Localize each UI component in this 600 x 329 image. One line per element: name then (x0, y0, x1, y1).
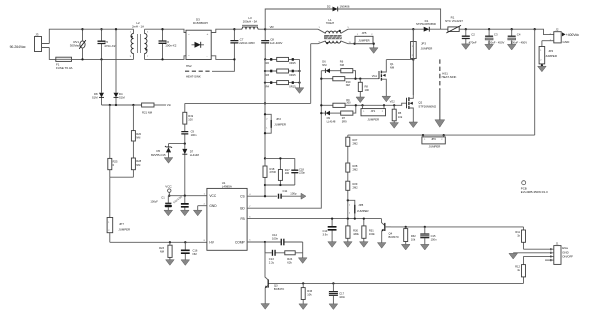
wire FB pin (247, 218, 381, 220)
svg-text:C2: C2 (471, 33, 475, 37)
svg-text:HEAT-SINK: HEAT-SINK (186, 74, 201, 78)
svg-text:JP1: JP1 (371, 109, 376, 113)
resistor R17 (265, 157, 295, 186)
wire enable line 1 (391, 226, 524, 228)
svg-text:2mH - 1A: 2mH - 1A (132, 25, 144, 29)
svg-text:BZV55-C15: BZV55-C15 (151, 153, 166, 157)
svg-text:R8: R8 (365, 85, 369, 89)
svg-text:STPSC6H065D: STPSC6H065D (416, 22, 436, 26)
jumper JP3 (411, 29, 433, 95)
svg-text:JP4: JP4 (548, 49, 553, 53)
jumper JP7 (107, 177, 130, 242)
svg-text:R12: R12 (515, 265, 520, 269)
wire bridge + output to rail (211, 29, 234, 32)
wire VCC line (168, 195, 207, 197)
wire divider top to 400V via JP9 (348, 134, 535, 136)
wire 400V rail (466, 29, 554, 34)
svg-text:100p: 100p (290, 192, 297, 196)
svg-text:62k: 62k (287, 260, 292, 264)
jumper JP9 (422, 134, 445, 149)
svg-text:JP3: JP3 (421, 41, 426, 45)
svg-text:R3: R3 (266, 73, 270, 77)
wire N rail after fuse (72, 58, 134, 60)
capacitor C16 (181, 242, 198, 265)
wire rail C8..L1 (265, 28, 318, 30)
diode D6 (321, 60, 341, 73)
wire L1 aux winding down (310, 44, 312, 104)
heatsink HS1 (435, 59, 457, 127)
svg-text:VR: VR (270, 25, 274, 29)
svg-text:R28: R28 (353, 164, 358, 168)
svg-text:100n-X2: 100n-X2 (165, 43, 176, 47)
svg-text:R29: R29 (353, 182, 358, 186)
svg-text:C12: C12 (272, 233, 278, 237)
svg-text:R25: R25 (113, 160, 118, 164)
svg-text:VG2: VG2 (390, 100, 396, 104)
shunt resistor R3 (264, 69, 301, 77)
svg-text:0R15: 0R15 (289, 61, 296, 65)
resistor R11 (515, 227, 525, 249)
wire top rail J3..L2 (83, 28, 134, 30)
svg-text:2.2u: 2.2u (269, 260, 275, 264)
wire join to JP7 (110, 176, 134, 178)
svg-text:R23: R23 (159, 246, 164, 250)
svg-text:D9: D9 (327, 116, 331, 120)
resistor R24 (285, 242, 307, 264)
shunt resistor R4 (264, 81, 301, 89)
svg-text:JUMPER: JUMPER (358, 39, 369, 43)
mosfet Q1 (379, 58, 414, 101)
svg-text:160k: 160k (369, 232, 375, 236)
resistor R6 (340, 60, 356, 79)
diode D7 (182, 144, 199, 196)
capacitor C14 (323, 217, 337, 247)
svg-text:100uF - 450V: 100uF - 450V (510, 41, 527, 45)
svg-text:D15XB60H: D15XB60H (193, 21, 208, 25)
svg-text:C3: C3 (494, 33, 498, 37)
svg-text:0R15: 0R15 (289, 73, 296, 77)
diode D2 (327, 4, 350, 11)
resistor R31 (360, 217, 376, 247)
svg-text:FUSE T6.3A: FUSE T6.3A (56, 66, 72, 70)
svg-text:NM: NM (136, 163, 140, 167)
wire rectified sense node (102, 104, 142, 106)
resistor R20 (131, 105, 141, 141)
svg-text:C16: C16 (193, 248, 198, 252)
jumper JP4 (538, 41, 557, 72)
wire rail C7..L3 (234, 28, 242, 30)
svg-text:VCC: VCC (209, 194, 217, 198)
svg-text:C1: C1 (161, 196, 165, 200)
svg-text:C15: C15 (431, 234, 436, 238)
wire rail L1..D1 (348, 28, 424, 30)
inductor L3 (242, 16, 258, 29)
capacitor C4 (507, 29, 527, 50)
wire top rail L2..bridge (145, 29, 187, 32)
svg-text:100n: 100n (191, 133, 197, 137)
svg-text:S1M: S1M (119, 95, 125, 99)
resistor R28b (131, 141, 141, 177)
svg-text:JUMPER: JUMPER (421, 46, 433, 50)
svg-text:R30: R30 (353, 228, 358, 232)
svg-text:R7: R7 (342, 116, 346, 120)
transistor Q4 (377, 219, 399, 249)
input voltage label (10, 45, 26, 49)
capacitor C15 (420, 227, 437, 250)
svg-text:100n: 100n (339, 295, 345, 299)
svg-text:COMP: COMP (235, 241, 245, 245)
wire 400V feedback drop to JP9 (534, 29, 536, 135)
wire ZCD horizontal (185, 102, 311, 104)
svg-text:VG1: VG1 (372, 74, 378, 78)
svg-text:2M2: 2M2 (353, 186, 359, 190)
capacitor C5 (98, 28, 116, 61)
svg-text:LL4148: LL4148 (190, 153, 200, 157)
resistor R10 (320, 77, 379, 88)
svg-text:3.9n: 3.9n (323, 232, 329, 236)
svg-text:D4: D4 (119, 92, 123, 96)
svg-text:R20: R20 (136, 132, 141, 136)
capacitor C17 (329, 283, 346, 309)
svg-text:VCC: VCC (165, 184, 172, 188)
svg-text:C17: C17 (339, 291, 344, 295)
svg-text:D8: D8 (94, 92, 98, 96)
jumper JP2 (264, 113, 286, 134)
connector J2 (542, 27, 580, 44)
svg-text:100uF - 450V: 100uF - 450V (488, 41, 505, 45)
svg-text:JUMPER: JUMPER (357, 209, 369, 213)
svg-text:S1M: S1M (92, 95, 98, 99)
wire rail L3..C8 node (258, 28, 265, 30)
svg-text:JP5: JP5 (362, 31, 367, 35)
svg-text:R2: R2 (266, 61, 270, 65)
svg-text:GD: GD (240, 206, 246, 210)
svg-text:R24: R24 (287, 257, 293, 261)
svg-text:STF26N60M2: STF26N60M2 (418, 104, 436, 108)
shunt resistor R2 (265, 57, 299, 65)
resistor R25 (108, 105, 118, 177)
resistor R23 (159, 242, 174, 265)
svg-text:+400Vdc: +400Vdc (566, 33, 580, 37)
svg-text:2M2: 2M2 (353, 167, 359, 171)
resistor R32 (401, 227, 416, 250)
svg-text:R21 NM: R21 NM (142, 110, 153, 114)
wire enable line 2 (268, 282, 523, 284)
capacitor C2 (462, 29, 477, 49)
svg-text:C11: C11 (283, 189, 288, 193)
svg-text:2M2: 2M2 (353, 141, 359, 145)
resistor R9 (320, 98, 356, 108)
svg-text:NM: NM (160, 249, 164, 253)
svg-text:JUMPER: JUMPER (118, 228, 130, 232)
svg-text:D6: D6 (322, 60, 326, 64)
svg-text:700uH: 700uH (326, 21, 334, 25)
diode D9 (320, 111, 341, 124)
svg-text:220p: 220p (299, 171, 305, 175)
svg-text:200uH - 5A: 200uH - 5A (243, 19, 257, 23)
svg-text:1N5406: 1N5406 (340, 4, 350, 8)
svg-text:100n: 100n (431, 238, 437, 242)
wire COMP pin (247, 241, 265, 243)
common-mode choke L2 (130, 21, 149, 59)
svg-text:BC847C: BC847C (274, 287, 284, 291)
resistor R28 (346, 163, 358, 181)
svg-text:R6: R6 (340, 60, 344, 64)
svg-text:430k: 430k (353, 232, 359, 236)
svg-text:90-264Vac: 90-264Vac (10, 45, 26, 49)
ground of GND pin (193, 206, 207, 216)
svg-text:EVL4985-350W R1.0: EVL4985-350W R1.0 (521, 190, 548, 194)
svg-text:JP8: JP8 (358, 203, 363, 207)
svg-text:NM: NM (322, 63, 326, 67)
svg-text:C9: C9 (191, 130, 195, 134)
diode D8 (92, 59, 104, 105)
jumper JP1 (361, 105, 386, 121)
svg-text:-: - (207, 55, 208, 59)
svg-text:NM: NM (193, 252, 197, 256)
svg-text:R32: R32 (411, 234, 416, 238)
svg-text:ON/OFF: ON/OFF (562, 254, 573, 258)
svg-text:JUMPER: JUMPER (429, 145, 441, 149)
capacitor C11 (278, 189, 306, 199)
mosfet Q2 (407, 29, 437, 127)
fuse F1 (56, 57, 73, 70)
svg-text:LL4148: LL4148 (327, 120, 336, 124)
svg-text:3R9: 3R9 (342, 120, 347, 124)
svg-text:Vin: Vin (167, 103, 172, 107)
wire bottom rail L2..bridge (145, 56, 187, 60)
svg-text:HS2: HS2 (186, 64, 192, 68)
svg-text:JP2: JP2 (276, 117, 281, 121)
svg-text:JP9: JP9 (431, 137, 436, 141)
svg-text:470nF: 470nF (469, 40, 477, 44)
svg-text:J2: J2 (556, 27, 559, 31)
svg-text:100: 100 (365, 88, 370, 92)
capacitor C3 (485, 29, 505, 50)
wire HV line (110, 241, 207, 243)
diode D4 (114, 28, 126, 105)
jumper JP5 (353, 31, 378, 53)
svg-text:GND: GND (563, 40, 571, 44)
svg-text:100: 100 (285, 171, 290, 175)
svg-text:NM: NM (136, 135, 140, 139)
svg-text:R5: R5 (398, 111, 402, 115)
resistor R21 (142, 103, 172, 114)
ground of J1 pin 2 (509, 253, 518, 259)
capacitor C1 (150, 196, 172, 216)
wire CS pin (247, 195, 277, 197)
svg-text:NM: NM (346, 83, 350, 87)
capacitor C12 (265, 233, 303, 245)
resistor R8 (356, 79, 369, 103)
wire bridge - output to bottom rail (211, 56, 234, 60)
jumper JP8 (347, 199, 369, 220)
svg-text:HEAT-SINK: HEAT-SINK (442, 75, 457, 79)
bridge rectifier D3 (186, 17, 211, 59)
capacitor C8, node VR (261, 25, 282, 60)
resistor R29 (346, 181, 358, 200)
svg-text:+: + (207, 32, 209, 36)
resistor R30 (344, 219, 360, 248)
svg-text:470n-X2: 470n-X2 (104, 44, 115, 48)
svg-text:100: 100 (188, 118, 193, 122)
svg-text:J3: J3 (35, 33, 39, 37)
svg-text:100n: 100n (272, 236, 279, 240)
resistor R19 (183, 103, 194, 124)
ground of shunt network (295, 59, 304, 93)
svg-text:C14: C14 (323, 229, 328, 233)
diode D1 (416, 19, 448, 32)
transistor Q3 (261, 242, 284, 309)
svg-text:NM: NM (390, 66, 395, 70)
svg-text:JUMPER: JUMPER (545, 54, 557, 58)
svg-text:JUMPER: JUMPER (367, 117, 379, 121)
net flag VCC (165, 184, 172, 196)
resistor R27 (346, 135, 358, 163)
svg-text:270R: 270R (270, 170, 276, 174)
svg-text:JUMPER: JUMPER (274, 123, 286, 127)
svg-text:GND: GND (209, 204, 217, 208)
zener diode D5 (151, 142, 186, 163)
svg-text:10k: 10k (411, 238, 416, 242)
svg-text:NTC VN-0237: NTC VN-0237 (445, 19, 463, 23)
resistor R12 (515, 256, 525, 283)
svg-text:NM: NM (340, 63, 344, 67)
IC U1 L4985 (204, 181, 252, 250)
svg-text:JP7: JP7 (119, 222, 124, 226)
svg-text:R27: R27 (353, 138, 358, 142)
svg-text:100uF: 100uF (150, 199, 158, 203)
connector J1 (513, 242, 573, 265)
NTC thermistor R1 (445, 16, 466, 33)
resistor R7 (341, 105, 356, 123)
bypass diode D2 wire (265, 9, 440, 29)
PCB note (521, 181, 548, 194)
svg-text:D2: D2 (327, 4, 331, 8)
wire GD pin to gate rail (247, 71, 321, 209)
svg-text:ENa: ENa (562, 246, 568, 250)
heatsink HS2 (185, 59, 234, 78)
capacitor C10 (173, 195, 189, 216)
svg-text:L4985A: L4985A (222, 185, 232, 189)
svg-text:Q4: Q4 (389, 232, 393, 236)
svg-text:1uF-400V: 1uF-400V (270, 41, 283, 45)
svg-text:FB: FB (241, 217, 245, 221)
svg-text:R11: R11 (515, 230, 520, 234)
svg-text:R31: R31 (369, 228, 374, 232)
svg-text:300: 300 (346, 101, 351, 105)
resistor R33 (299, 283, 313, 309)
svg-text:D5: D5 (156, 149, 160, 153)
capacitor C18 (291, 158, 305, 185)
boost inductor L1 (coupled) (311, 18, 355, 44)
capacitor C13 (265, 242, 285, 264)
svg-text:R19: R19 (188, 114, 193, 118)
svg-text:Q1: Q1 (390, 62, 394, 66)
svg-text:R28: R28 (136, 159, 141, 163)
wire L phase from J3 to top rail (49, 29, 82, 43)
svg-text:Q3: Q3 (274, 283, 278, 287)
varistor RV1 (70, 28, 86, 61)
capacitor C9 (181, 124, 197, 144)
resistor R5 (390, 105, 403, 128)
svg-text:220nF-305V: 220nF-305V (239, 41, 255, 45)
svg-text:R33: R33 (307, 289, 312, 293)
wire gate node to Q2 (356, 103, 407, 105)
resistor R18 (263, 157, 276, 186)
svg-text:300Vac: 300Vac (70, 44, 80, 48)
wire N from J3 to fuse (49, 48, 56, 60)
svg-text:C4: C4 (517, 33, 521, 37)
wire CS sense column (264, 59, 266, 196)
svg-text:10k: 10k (307, 292, 312, 296)
svg-text:BC847C: BC847C (389, 235, 399, 239)
svg-text:R4: R4 (266, 84, 270, 88)
capacitor C6 (159, 28, 177, 61)
svg-text:C13: C13 (269, 257, 275, 261)
connector J3 (35, 33, 50, 52)
capacitor C7 (230, 28, 255, 61)
svg-text:10k: 10k (398, 115, 403, 119)
svg-text:D7: D7 (190, 149, 194, 153)
